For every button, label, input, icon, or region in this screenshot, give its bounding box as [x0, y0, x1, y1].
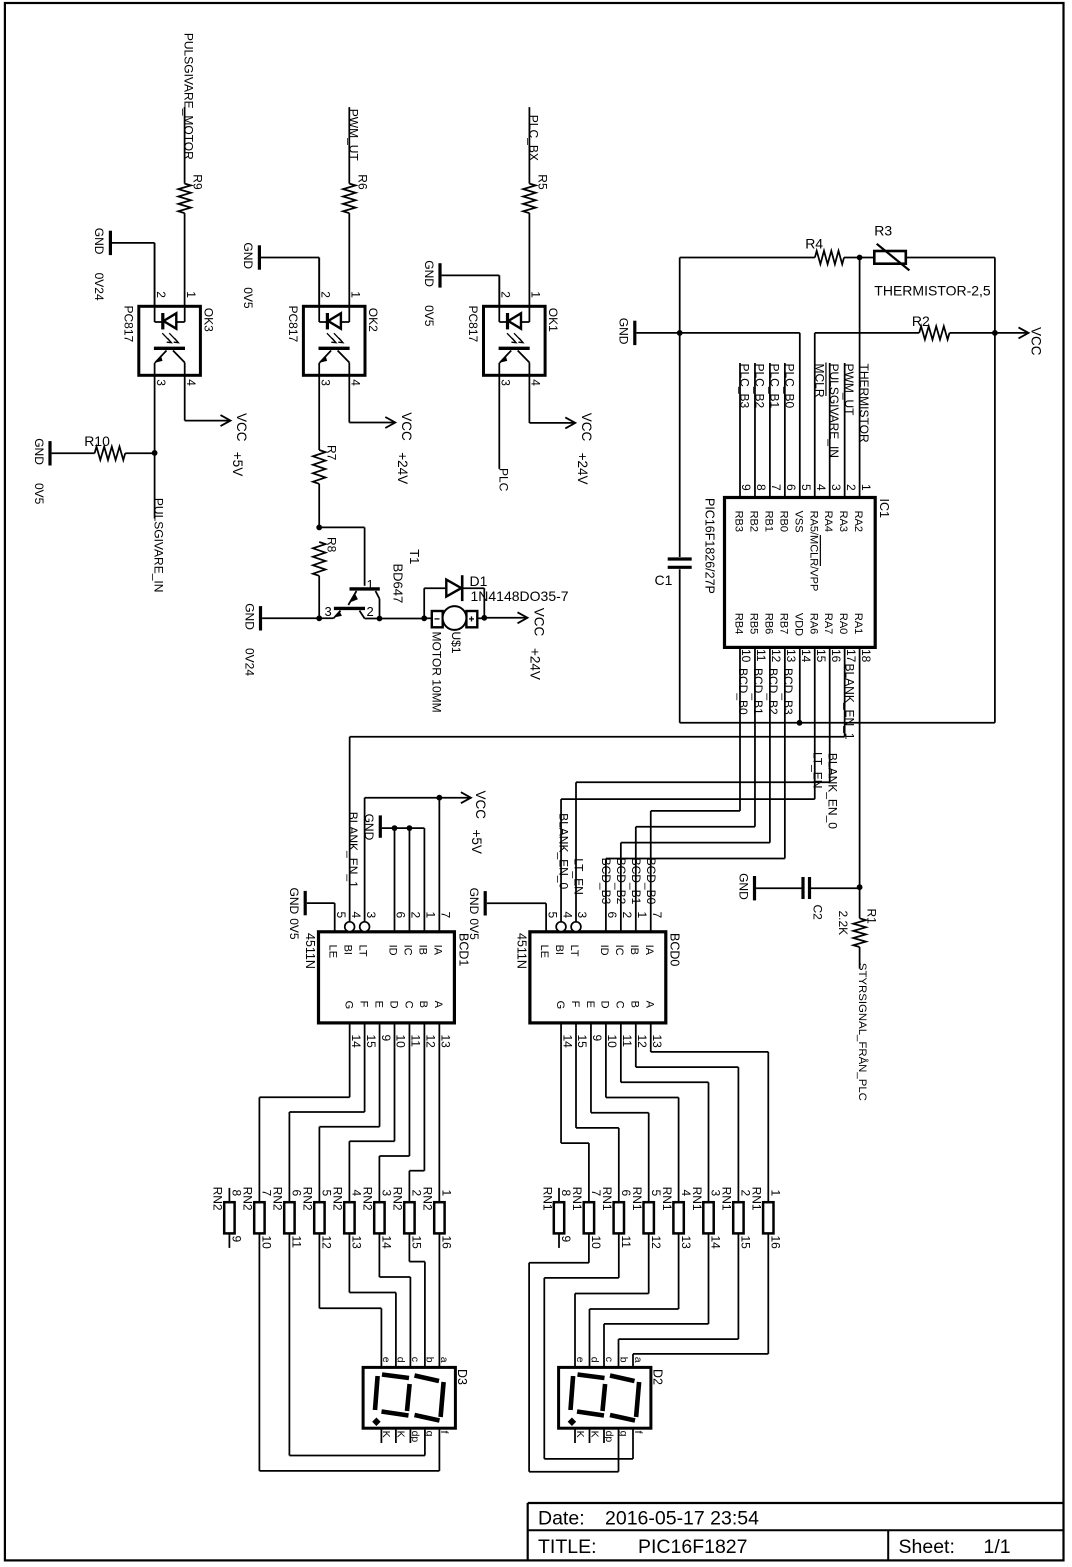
BCD1 inversion bubble [360, 922, 370, 932]
svg-text:4: 4 [184, 379, 198, 386]
OK2 LED triangle [328, 313, 341, 328]
svg-text:1: 1 [424, 912, 438, 919]
svg-text:PC817: PC817 [286, 306, 300, 343]
wire to VCC arrow [484, 617, 527, 619]
supply VCC +24V arrow at OK2 [385, 417, 395, 428]
ground [259, 606, 262, 630]
svg-text:R5: R5 [536, 174, 550, 190]
svg-text:+5V: +5V [469, 830, 484, 854]
OK3 LED cathode bar [161, 313, 164, 329]
svg-text:g: g [424, 1431, 436, 1437]
resistor R9 [178, 184, 191, 214]
svg-text:THERMISTOR: THERMISTOR [857, 364, 871, 443]
OK2 pin 1 wire [348, 306, 350, 322]
wire BCD1 output D to RN2 [394, 1023, 396, 1141]
svg-text:RN2: RN2 [271, 1187, 285, 1211]
svg-text:9: 9 [739, 484, 753, 491]
BCD1 inversion bubble [345, 922, 355, 932]
svg-text:7: 7 [439, 912, 453, 919]
wire net PLC_B1 stub [769, 363, 771, 498]
svg-text:BCD_B3: BCD_B3 [599, 858, 613, 905]
svg-text:R4: R4 [805, 235, 823, 251]
svg-text:RA3: RA3 [837, 511, 849, 532]
svg-text:C: C [614, 1001, 626, 1009]
wire OK2 pin4 to VCC [348, 375, 350, 422]
wire RN1.6 to D2 f [618, 1233, 620, 1278]
wire STYRSIGNAL stub [859, 947, 861, 969]
svg-text:1N4148DO35-7: 1N4148DO35-7 [471, 588, 569, 604]
svg-text:VCC: VCC [579, 413, 594, 442]
wire R8 to emitter rail [318, 576, 320, 619]
OK1 phototransistor emitter [500, 351, 512, 363]
wire OK1 pin4 to VCC [528, 375, 530, 423]
D2 decimal point [568, 1418, 576, 1426]
svg-text:15: 15 [739, 1236, 753, 1250]
svg-text:13: 13 [350, 1236, 364, 1250]
svg-text:14: 14 [709, 1236, 723, 1250]
wire R6 to OK2 pin1 [348, 213, 350, 306]
svg-text:4511N: 4511N [303, 933, 317, 969]
svg-text:R9: R9 [191, 174, 205, 190]
svg-text:0V5: 0V5 [422, 305, 436, 327]
svg-text:PLC_B3: PLC_B3 [738, 364, 752, 409]
wire BCD0 output A to RN1 [650, 1023, 652, 1052]
wire BCD1 LT to VCC [364, 798, 366, 922]
svg-text:2: 2 [499, 291, 513, 298]
OK3 phototransistor base bar [154, 347, 185, 350]
svg-text:+5V: +5V [230, 452, 245, 476]
svg-text:RN2: RN2 [211, 1187, 225, 1211]
svg-text:3: 3 [154, 379, 168, 386]
motor U$1 [432, 611, 443, 627]
svg-text:OK1: OK1 [546, 308, 560, 332]
wire BCD1 output E to RN2 [379, 1023, 381, 1127]
svg-text:VCC: VCC [399, 412, 414, 441]
svg-text:c: c [409, 1357, 421, 1362]
svg-text:D: D [599, 1001, 611, 1009]
wire C1 branch upper [679, 333, 681, 557]
svg-text:11: 11 [620, 1035, 634, 1048]
resistor RN1 element 2/15 [733, 1202, 743, 1233]
resistor RN2 element 5/12 [314, 1202, 324, 1233]
svg-text:VDD: VDD [792, 613, 804, 636]
OK1 phototransistor collector [518, 351, 530, 363]
wire RN1.2 to D2 b [737, 1233, 739, 1339]
resistor RN2 element 6/11 [284, 1202, 294, 1233]
svg-text:10: 10 [260, 1236, 274, 1250]
svg-text:IC: IC [401, 945, 413, 956]
svg-text:BLANK_EN_0: BLANK_EN_0 [825, 753, 839, 829]
OK2 pin 2 wire [318, 306, 320, 322]
supply VCC +24V arrow at OK1 [565, 417, 575, 428]
svg-text:14: 14 [349, 1035, 363, 1049]
OK3 phototransistor emitter [155, 351, 167, 363]
svg-text:9: 9 [559, 1236, 573, 1243]
svg-text:16: 16 [769, 1236, 783, 1250]
resistor RN1 element 4/13 [673, 1202, 683, 1233]
svg-text:RB2: RB2 [747, 511, 759, 532]
resistor R2 [919, 326, 949, 339]
svg-text:BLANK_EN_1: BLANK_EN_1 [346, 812, 360, 888]
svg-text:PLC_B1: PLC_B1 [767, 364, 781, 409]
svg-text:RA7: RA7 [822, 613, 834, 634]
svg-text:Sheet:: Sheet: [899, 1536, 955, 1558]
svg-text:1: 1 [349, 291, 363, 298]
svg-text:10: 10 [394, 1035, 408, 1049]
resistor RN2 element 7/10 [254, 1202, 264, 1233]
svg-text:TITLE:: TITLE: [538, 1536, 597, 1558]
svg-text:ID: ID [598, 945, 610, 956]
svg-text:GND: GND [362, 814, 376, 841]
wire PWM_UT stub [348, 107, 350, 184]
thermistor R3 [874, 251, 906, 264]
junction D1 left [421, 615, 427, 621]
capacitor C2 [801, 877, 804, 899]
svg-text:4: 4 [560, 912, 574, 919]
svg-text:RB4: RB4 [733, 613, 745, 634]
wire RN2.4 to D3 d [348, 1233, 350, 1292]
resistor R8 [313, 542, 326, 576]
D2 unconnected pin stub [574, 1428, 576, 1443]
resistor R7 [313, 450, 326, 484]
wire RN2.5 to D3 e [318, 1233, 320, 1308]
svg-text:14: 14 [380, 1236, 394, 1250]
svg-text:T1: T1 [407, 549, 422, 564]
svg-text:e: e [380, 1357, 392, 1363]
wire BCD1 output B to RN2 [423, 1023, 425, 1171]
svg-text:15: 15 [364, 1035, 378, 1049]
svg-text:RN1: RN1 [570, 1187, 584, 1211]
resistor RN2 element 2/15 [404, 1202, 414, 1233]
svg-text:U$1: U$1 [449, 632, 463, 654]
svg-text:3: 3 [318, 379, 332, 386]
resistor RN1 element 6/11 [614, 1202, 624, 1233]
wire BCD0 output D to RN1 [605, 1023, 607, 1098]
svg-text:2016-05-17 23:54: 2016-05-17 23:54 [605, 1508, 759, 1530]
wire C2 to junction [810, 887, 860, 889]
display D2 box [559, 1367, 651, 1428]
D2 unconnected pin stub [603, 1428, 605, 1443]
svg-text:2: 2 [409, 912, 423, 919]
wire OK3 pin3 to node [154, 375, 156, 452]
svg-text:R1: R1 [865, 909, 879, 925]
svg-text:MOTOR 10MM: MOTOR 10MM [430, 632, 444, 713]
svg-text:0V5: 0V5 [241, 287, 255, 309]
supply VCC +5V arrow at BCD1 [461, 792, 471, 803]
svg-text:LT: LT [357, 945, 369, 957]
svg-text:MCLR: MCLR [812, 364, 826, 398]
svg-text:GND: GND [736, 873, 750, 900]
svg-text:3: 3 [829, 484, 843, 491]
wire BCD0 output B to RN1 [635, 1023, 637, 1067]
svg-text:17: 17 [844, 649, 858, 663]
wire net BLANK_EN_1 from pin 17 [844, 647, 846, 736]
svg-text:b: b [617, 1357, 629, 1363]
IC IC1 PIC16F1826/27P box [725, 498, 876, 648]
svg-text:C1: C1 [655, 572, 673, 588]
svg-text:3: 3 [364, 912, 378, 919]
svg-text:d: d [395, 1357, 407, 1363]
svg-text:BCD_B0: BCD_B0 [736, 668, 750, 715]
wire OK2 pin3 to R7 [318, 375, 320, 450]
ground [258, 245, 261, 269]
svg-text:RN1: RN1 [630, 1187, 644, 1211]
junction GND/C1 [677, 330, 683, 336]
wire BCD0 output E to RN1 [590, 1023, 592, 1113]
wire junction to T1 base [319, 526, 364, 528]
wire net PULSGIVARE_IN stub at RA4 [829, 363, 831, 498]
svg-text:2: 2 [844, 484, 858, 491]
svg-text:13: 13 [679, 1236, 693, 1250]
wire OK3 pin4 to VCC [184, 375, 186, 420]
svg-text:GND: GND [241, 242, 255, 269]
resistor RN1 element 7/10 [584, 1202, 594, 1233]
IC BCD1 4511N box [319, 932, 455, 1023]
svg-text:18: 18 [859, 649, 873, 663]
svg-text:16: 16 [829, 649, 843, 663]
svg-text:3: 3 [499, 379, 513, 386]
svg-text:15: 15 [575, 1035, 589, 1049]
OK1 input GND wire [498, 275, 500, 306]
wire C1 branch lower [679, 569, 681, 723]
OK2 input GND wire [318, 258, 320, 307]
resistor RN1 element 1/16 [763, 1202, 773, 1233]
svg-text:STYRSIGNAL_FRÅN_PLC: STYRSIGNAL_FRÅN_PLC [856, 963, 869, 1101]
svg-text:f: f [632, 1431, 644, 1434]
wire RN2.6 to D3 g [288, 1233, 290, 1455]
wire R3 to VCC rail [906, 257, 995, 259]
OK2 phototransistor collector [338, 351, 350, 363]
svg-text:LE: LE [538, 945, 550, 958]
svg-text:7: 7 [650, 912, 664, 919]
D3 decimal point [372, 1418, 380, 1426]
svg-text:12: 12 [424, 1035, 438, 1049]
wire RN2.2 to D3 b [408, 1233, 410, 1261]
svg-text:2: 2 [620, 912, 634, 919]
optocoupler OK3 PC817 box [139, 306, 201, 375]
svg-text:G: G [554, 1001, 566, 1010]
svg-text:IC: IC [613, 945, 625, 956]
OK1 light arrows [507, 333, 516, 343]
svg-text:IA: IA [431, 945, 443, 956]
svg-text:B: B [629, 1001, 641, 1008]
svg-text:OK2: OK2 [366, 308, 380, 332]
OK3 pin 2 wire [154, 306, 156, 322]
ground at BCD1 inputs [379, 815, 382, 837]
svg-text:C: C [402, 1001, 414, 1009]
IC BCD0 4511N box [530, 932, 666, 1023]
wire RN1.7 to D2 g [588, 1233, 590, 1262]
svg-text:RB0: RB0 [777, 511, 789, 532]
svg-text:R7: R7 [325, 445, 339, 461]
supply VCC arrow right [1019, 327, 1029, 338]
D3 unconnected pin stub [380, 1428, 382, 1443]
resistor R4 [815, 251, 844, 264]
svg-text:11: 11 [619, 1236, 633, 1249]
svg-text:13: 13 [650, 1035, 664, 1049]
svg-text:A: A [432, 1001, 444, 1009]
wire net BCD_B2 from pin 12 [769, 647, 771, 842]
svg-text:RN2: RN2 [361, 1187, 375, 1211]
wire VDD line [680, 722, 995, 724]
svg-text:GND: GND [617, 318, 631, 345]
svg-text:e: e [574, 1357, 586, 1363]
resistor RN2 element 4/13 [344, 1202, 354, 1233]
OK1 pin 1 wire [528, 306, 530, 322]
svg-text:IC1: IC1 [877, 499, 891, 519]
resistor R1 [859, 887, 861, 918]
title block frame [528, 1502, 1064, 1504]
wire GND to C2 [756, 887, 803, 889]
svg-text:RA6: RA6 [807, 613, 819, 634]
svg-text:f: f [438, 1431, 450, 1434]
svg-text:4511N: 4511N [514, 933, 528, 969]
OK3 pin 1 wire [184, 306, 186, 322]
wire R5 to OK1 pin1 [528, 213, 530, 306]
svg-text:10: 10 [589, 1236, 603, 1250]
svg-text:14: 14 [799, 649, 813, 663]
wire net PWM_UT stub at RA3 [844, 363, 846, 498]
wire PLC_BX stub [528, 107, 530, 184]
svg-text:BCD_B3: BCD_B3 [781, 668, 795, 715]
svg-text:a: a [632, 1357, 644, 1363]
wire net BCD_B3 from pin 13 [784, 647, 786, 858]
svg-text:1: 1 [635, 912, 649, 919]
svg-text:4: 4 [529, 379, 543, 386]
svg-text:D1: D1 [470, 573, 488, 589]
junction R2/VCC [992, 330, 998, 336]
svg-text:VCC: VCC [1029, 327, 1044, 356]
resistor R10 [95, 447, 126, 460]
ground [753, 876, 756, 900]
svg-text:RB7: RB7 [777, 613, 789, 634]
wire BCD0 output G to RN1 [560, 1023, 562, 1143]
svg-text:GND: GND [92, 228, 106, 255]
wire GND to BCD1 LE [307, 902, 335, 904]
wire VSS to GND rail [799, 333, 801, 498]
D2 unconnected pin stub [589, 1428, 591, 1443]
wire net LT_EN from pin 15 [814, 647, 816, 799]
svg-text:C2: C2 [811, 905, 825, 921]
RN1 pin 9 stub [558, 1233, 560, 1248]
svg-text:6: 6 [605, 912, 619, 919]
svg-text:BLANK_EN_1: BLANK_EN_1 [842, 664, 856, 740]
svg-text:5: 5 [334, 912, 348, 919]
svg-text:4: 4 [349, 379, 363, 386]
svg-text:13: 13 [784, 649, 798, 663]
svg-text:0V5: 0V5 [467, 918, 481, 940]
svg-text:PC817: PC817 [466, 306, 480, 343]
wire net PLC_B3 stub [739, 363, 741, 498]
svg-text:PULSGIVARE_IN: PULSGIVARE_IN [152, 498, 166, 592]
svg-text:2: 2 [367, 604, 374, 619]
svg-text:1/1: 1/1 [984, 1536, 1011, 1558]
wire VDD pin 14 [799, 647, 801, 722]
resistor R6 [343, 184, 356, 214]
wire net BCD_B0 from pin 10 [739, 647, 741, 811]
svg-text:2: 2 [154, 291, 168, 298]
svg-text:0V24: 0V24 [242, 648, 256, 676]
svg-text:Date:: Date: [538, 1508, 585, 1530]
svg-text:3: 3 [325, 604, 332, 619]
svg-text:GND: GND [467, 888, 481, 915]
svg-text:RN2: RN2 [391, 1187, 405, 1211]
svg-text:BI: BI [342, 945, 354, 955]
svg-text:RA5/MCLR/VPP: RA5/MCLR/VPP [807, 511, 819, 592]
svg-text:RN1: RN1 [750, 1187, 764, 1211]
svg-text:g: g [617, 1431, 629, 1437]
wire RN2.1 to D3 a [438, 1233, 440, 1367]
svg-text:15: 15 [814, 649, 828, 663]
D2 segments [571, 1376, 574, 1410]
junction R8/rail [316, 615, 322, 621]
wire RN1.3 to D2 c [708, 1233, 710, 1324]
wire R10 to junction [125, 452, 154, 454]
wire R7 to junction [318, 484, 320, 528]
svg-text:D2: D2 [651, 1369, 665, 1385]
svg-text:16: 16 [440, 1236, 454, 1250]
wire VCC rail down to VDD line [994, 333, 996, 723]
OK1 phototransistor base bar [499, 347, 530, 350]
wire RN1.5 to D2 e [648, 1233, 650, 1293]
svg-text:OK3: OK3 [201, 308, 215, 332]
svg-text:GND: GND [32, 438, 46, 465]
ground [438, 263, 441, 287]
svg-text:8: 8 [754, 484, 768, 491]
junction R10/OK3.3/PULSGIVARE_IN [152, 450, 158, 456]
wire R2 to VCC node [950, 332, 995, 334]
ground [304, 891, 307, 915]
svg-text:RN1: RN1 [540, 1187, 554, 1211]
wire BCD0 output C to RN1 [620, 1023, 622, 1082]
svg-text:RN2: RN2 [241, 1187, 255, 1211]
svg-text:a: a [438, 1357, 450, 1363]
svg-text:BCD_B1: BCD_B1 [629, 858, 643, 905]
svg-text:VCC: VCC [473, 791, 488, 820]
svg-text:RN2: RN2 [421, 1187, 435, 1211]
wire BCD1 output F to RN2 [364, 1023, 366, 1112]
svg-text:LT_EN: LT_EN [571, 858, 585, 894]
wire junction to R3 [860, 257, 875, 259]
wire R4 to junction [844, 257, 860, 259]
junction R4/R3/RA2 [857, 255, 863, 261]
RN1 pin 8 stub [558, 1188, 560, 1202]
junction R7/R8/T1 base [316, 525, 322, 531]
svg-text:D3: D3 [455, 1369, 469, 1385]
wire net PLC_B2 stub [754, 363, 756, 498]
wire pin 18 to C2/R1 node [859, 647, 861, 887]
svg-text:BLANK_EN_0: BLANK_EN_0 [556, 813, 570, 889]
svg-text:+24V: +24V [575, 453, 590, 485]
svg-text:PIC16F1826/27P: PIC16F1826/27P [703, 498, 717, 594]
wire rail to motor [424, 617, 432, 619]
wire R4 left branch [680, 257, 815, 259]
svg-text:BD647: BD647 [390, 564, 405, 604]
svg-text:PIC16F1827: PIC16F1827 [638, 1536, 748, 1558]
svg-text:4: 4 [349, 912, 363, 919]
svg-text:RB1: RB1 [762, 511, 774, 532]
wire BCD1 output C to RN2 [408, 1023, 410, 1156]
svg-text:R2: R2 [912, 313, 930, 329]
transistor T1 BD647 [350, 587, 380, 590]
BCD0 inversion bubble [571, 922, 581, 932]
junction C2/R1 [857, 884, 863, 890]
wire GND to BCD0 LE [487, 902, 546, 904]
svg-text:1: 1 [859, 484, 873, 491]
OK3 light arrows [162, 333, 171, 343]
resistor RN2 element 1/16 [434, 1202, 444, 1233]
svg-text:9: 9 [230, 1236, 244, 1243]
